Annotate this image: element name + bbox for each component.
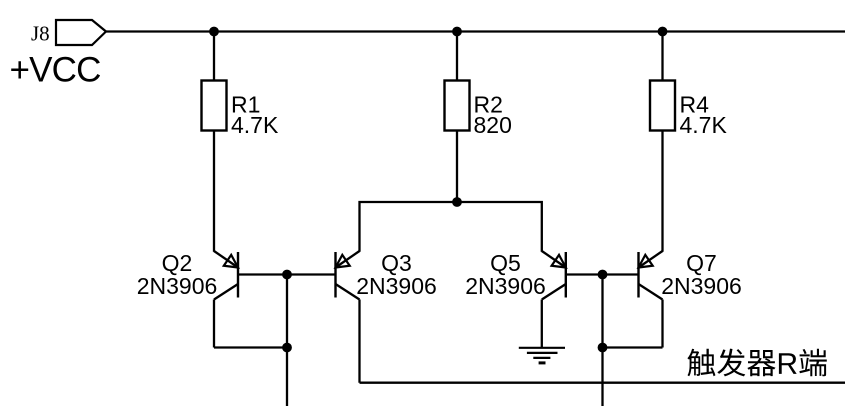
junction dot Q2 collector feedback: [282, 343, 292, 353]
wire: emitter rail between Q3 and Q5: [360, 202, 542, 252]
net label: trigger R terminal (CJK drawn as paths): [687, 349, 826, 377]
glyph 端: [799, 349, 826, 377]
wire: Q5 collector to ground: [541, 300, 543, 348]
wire: Q2 base node down: [286, 275, 288, 406]
wire: VCC rail to R2: [456, 32, 458, 81]
svg-text:+VCC: +VCC: [10, 51, 101, 90]
glyph 触: [687, 349, 715, 377]
transistor Q3: [287, 251, 360, 300]
wire: R4 to Q7 emitter: [661, 131, 663, 252]
wire: VCC rail to R1: [213, 32, 215, 81]
svg-text:2N3906: 2N3906: [356, 273, 437, 299]
wire: Q2 collector down: [213, 300, 215, 348]
resistor R4: [650, 81, 675, 131]
junction dot Q2/Q3 base node: [282, 270, 292, 280]
glyph R: [779, 353, 797, 374]
resistor R1: [202, 81, 227, 131]
svg-text:2N3906: 2N3906: [661, 273, 742, 299]
wire: +VCC top rail: [106, 30, 845, 32]
wire: output to trigger R terminal: [360, 382, 845, 384]
junction dot VCC/R2: [452, 27, 462, 37]
transistor Q5: [542, 251, 603, 300]
wire: R2 to Q3/Q5 emitter rail: [456, 131, 458, 203]
svg-text:2N3906: 2N3906: [465, 273, 546, 299]
wire: Q5/Q7 base node down: [601, 275, 603, 406]
wire: Q3 collector down: [358, 300, 360, 383]
glyph 发: [717, 349, 745, 377]
wire: Q2 collector to base node: [214, 346, 287, 348]
wire: Q7 collector down: [661, 300, 663, 348]
svg-text:2N3906: 2N3906: [137, 273, 218, 299]
svg-text:J8: J8: [31, 22, 50, 46]
transistor Q7: [603, 251, 663, 300]
glyph 器: [747, 350, 775, 376]
svg-text:820: 820: [474, 112, 512, 138]
transistor Q2: [214, 251, 287, 300]
svg-text:4.7K: 4.7K: [680, 112, 728, 138]
junction dot Q7 collector feedback: [598, 343, 608, 353]
junction dot R2/emitter rail: [452, 197, 462, 207]
resistor R2: [445, 81, 470, 131]
connector J8 flag: [56, 20, 106, 45]
wire: Q7 collector to base node: [603, 346, 663, 348]
wire: VCC rail to R4: [661, 32, 663, 81]
junction dot Q5/Q7 base node: [598, 270, 608, 280]
svg-text:4.7K: 4.7K: [231, 112, 279, 138]
wire: R1 to Q2 emitter: [213, 131, 215, 252]
junction dot VCC/R1: [209, 27, 219, 37]
ground: [519, 348, 565, 363]
junction dot VCC/R4: [658, 27, 668, 37]
